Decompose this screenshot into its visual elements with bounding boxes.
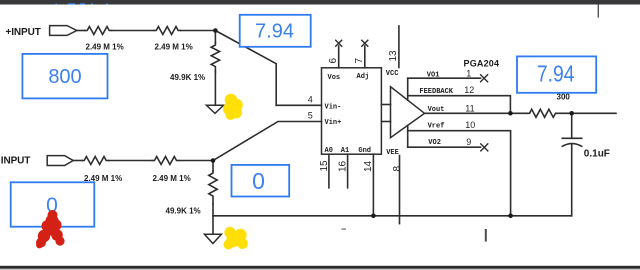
wire pin 4	[276, 104, 321, 106]
capacitor C1 curved plate	[562, 144, 581, 147]
top toolbar strip	[0, 0, 640, 5]
svg-text:6: 6	[328, 58, 339, 64]
svg-text:0: 0	[252, 168, 265, 194]
connector +INPUT terminal	[50, 26, 77, 36]
capacitor C1 wire bottom	[571, 145, 573, 216]
resistor R1 2.49M (top left)	[85, 27, 112, 35]
red annotation blob	[36, 210, 65, 248]
svg-text:0.1uF: 0.1uF	[584, 148, 610, 159]
measurement box 0 (middle)	[232, 165, 290, 197]
wire to top node	[181, 30, 216, 32]
svg-text:Adj: Adj	[357, 73, 370, 81]
svg-text:2.49 M 1%: 2.49 M 1%	[153, 174, 191, 183]
svg-text:9: 9	[466, 137, 471, 147]
VO2 pin 9 line	[408, 146, 481, 148]
node E (gnd pin rail junction)	[371, 214, 376, 219]
pin 6 lead	[338, 46, 340, 68]
capacitor C1 plate	[562, 137, 581, 139]
svg-text:11: 11	[465, 104, 474, 114]
svg-text:VO1: VO1	[427, 71, 440, 79]
measurement box 7.94 (right)	[517, 56, 596, 92]
svg-text:VO2: VO2	[428, 139, 441, 147]
VO1 no-connect X	[481, 75, 488, 82]
svg-text:Vin+: Vin+	[325, 119, 342, 127]
text cursor mark	[485, 229, 487, 242]
svg-text:FEEDBACK: FEEDBACK	[419, 88, 453, 96]
op-amp U2 triangle	[391, 87, 425, 138]
connector -INPUT terminal	[47, 156, 73, 166]
svg-text:4: 4	[308, 94, 313, 104]
ground (bottom)	[204, 234, 221, 243]
wire +input to R1	[77, 30, 85, 32]
node F (Vref rail junction)	[508, 214, 513, 219]
svg-text:49.9K 1%: 49.9K 1%	[170, 73, 205, 82]
svg-text:10: 10	[465, 120, 475, 130]
pin 7 lead	[364, 46, 366, 68]
resistor R7 300	[528, 109, 556, 117]
wire -input to R4	[73, 160, 82, 162]
wire to bottom ground	[212, 204, 214, 234]
FEEDBACK pin 12 line	[408, 96, 511, 114]
svg-text:Vin-: Vin-	[325, 103, 342, 111]
svg-text:Vos: Vos	[328, 74, 341, 82]
pin 6 no-connect X	[336, 40, 342, 46]
svg-text:1: 1	[466, 69, 471, 79]
measurement box 7.94 (top)	[240, 15, 311, 47]
stub IC to opamp (lower)	[381, 121, 390, 123]
bottom taskbar strip	[0, 266, 640, 269]
wire after 300	[556, 112, 616, 114]
svg-text:7.94: 7.94	[537, 60, 575, 86]
resistor R4 2.49M (bottom left)	[82, 157, 109, 165]
wire between top resistors	[112, 30, 155, 32]
wire node to vertical resistor (bottom)	[212, 161, 214, 171]
svg-text:12: 12	[464, 85, 474, 95]
VCC lead pin 13	[398, 26, 400, 68]
svg-text:A1: A1	[341, 147, 349, 155]
svg-text:800: 800	[48, 66, 81, 88]
stray dash artifact	[342, 228, 347, 230]
svg-text:+INPUT: +INPUT	[6, 27, 41, 38]
pin 16 lead	[347, 154, 349, 188]
ground rail wire	[213, 215, 572, 217]
VEE lead pin 8	[399, 156, 401, 224]
capacitor C1 wire top	[571, 113, 573, 138]
screen artifact vertical line (top right)	[597, 5, 599, 18]
Vref pin 10 line	[408, 131, 511, 216]
measurement box 0 (left)	[11, 182, 95, 226]
svg-text:5: 5	[308, 111, 313, 121]
wire between bottom resistors	[109, 160, 153, 162]
yellow highlight blob (bottom ground)	[224, 227, 248, 250]
left bus vertical (VO1/FEEDBACK)	[407, 78, 409, 100]
resistor R5 2.49M (bottom)	[152, 157, 179, 165]
resistor R3 49.9K (top vertical)	[211, 43, 219, 72]
wire to bottom node	[179, 160, 213, 162]
ground (top)	[206, 105, 223, 113]
wire to top ground	[214, 72, 216, 105]
resistor R6 49.9K (bottom vertical)	[209, 171, 217, 204]
svg-text:PGA204: PGA204	[464, 58, 500, 68]
VO1 pin 1 line	[408, 77, 481, 79]
svg-text:Vout: Vout	[428, 106, 445, 114]
IC U1 box	[322, 68, 382, 154]
svg-text:49.9K 1%: 49.9K 1%	[166, 207, 201, 216]
VO2 no-connect X	[481, 144, 488, 151]
svg-text:13: 13	[388, 50, 399, 62]
svg-text:15: 15	[319, 160, 330, 172]
node C (feedback-Vout junction)	[508, 111, 513, 116]
left bus vertical (Vref/VO2)	[407, 125, 409, 147]
svg-text:INPUT: INPUT	[1, 155, 31, 166]
Vout pin 11 wire	[425, 112, 528, 114]
wire node to vertical resistor	[214, 31, 216, 44]
svg-text:VCC: VCC	[386, 70, 399, 78]
yellow highlight blob (top ground)	[223, 94, 243, 120]
svg-text:Gnd: Gnd	[358, 147, 371, 155]
stub IC to opamp (upper)	[381, 104, 390, 106]
svg-text:2.49 M 1%: 2.49 M 1%	[155, 43, 193, 52]
svg-text:2.49 M 1%: 2.49 M 1%	[86, 43, 124, 52]
node A (top input junction)	[213, 28, 218, 33]
measurement box 800	[22, 54, 107, 99]
svg-text:VEE: VEE	[386, 149, 399, 157]
svg-text:7.94: 7.94	[255, 21, 294, 43]
svg-text:Vref: Vref	[428, 122, 445, 130]
pin 7 no-connect X	[362, 40, 368, 46]
wire pin 5	[213, 122, 322, 161]
pin 15 lead	[328, 154, 330, 188]
svg-text:300: 300	[557, 93, 571, 102]
svg-text:16: 16	[338, 160, 349, 172]
svg-text:A0: A0	[325, 147, 333, 155]
resistor R2 2.49M (top)	[154, 27, 181, 35]
svg-text:14: 14	[363, 160, 374, 172]
wire diagonal node to pin4 corner	[215, 31, 276, 106]
node D (Vout-cap junction)	[569, 111, 574, 116]
svg-text:7: 7	[354, 58, 365, 64]
pin 14 Gnd lead	[372, 154, 374, 216]
svg-text:8: 8	[392, 166, 403, 172]
node B (bottom input junction)	[211, 158, 216, 163]
